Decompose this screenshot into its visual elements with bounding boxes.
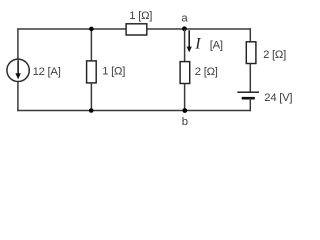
- svg-text:24 [V]: 24 [V]: [264, 92, 292, 104]
- svg-text:I: I: [194, 36, 201, 53]
- wire: left branch lower: [17, 82, 19, 112]
- label: 12 [A]: [33, 66, 61, 78]
- label: 1 [ohm] for R1: [129, 10, 152, 22]
- node b dot: [182, 108, 187, 113]
- svg-text:a: a: [181, 13, 188, 25]
- wire: bottom rail: [17, 110, 251, 112]
- current source I1 (12 A): [7, 59, 29, 81]
- wire: right branch middle: [249, 63, 251, 92]
- label: [A]: [210, 39, 223, 51]
- svg-text:b: b: [182, 116, 188, 128]
- resistor R2 1 ohm (vertical box): [87, 61, 97, 83]
- wire: right branch lower: [249, 98, 251, 111]
- resistor R1 1 ohm (horizontal box): [126, 24, 147, 35]
- wire: right branch upper: [249, 28, 251, 42]
- resistor R3 2 ohm (vertical box): [180, 62, 190, 84]
- wire: branch3 upper: [184, 29, 186, 62]
- current arrow I: [187, 30, 192, 52]
- label: I: [194, 36, 201, 53]
- junction dot bottom of R2 branch: [89, 108, 94, 113]
- svg-text:2 [Ω]: 2 [Ω]: [263, 49, 286, 61]
- wire: branch2 lower: [90, 83, 92, 111]
- node a dot: [182, 26, 187, 31]
- resistor R4 2 ohm (vertical box): [246, 42, 256, 64]
- svg-text:[A]: [A]: [210, 39, 223, 51]
- label: 2 [ohm] for R4: [263, 49, 286, 61]
- wire: top rail right segment: [147, 28, 251, 30]
- label: 24 [V]: [264, 92, 292, 104]
- svg-text:2 [Ω]: 2 [Ω]: [195, 66, 218, 78]
- wire: branch3 lower: [184, 84, 186, 111]
- label: node a: [181, 13, 188, 25]
- junction dot top of R2 branch: [89, 27, 94, 32]
- battery V1 24V: short thick plate: [242, 97, 255, 100]
- svg-text:1 [Ω]: 1 [Ω]: [129, 10, 152, 22]
- wire: branch2 upper: [90, 29, 92, 61]
- battery V1 24V: long plate: [237, 91, 259, 93]
- wire: top rail left segment: [17, 28, 126, 30]
- svg-text:12 [A]: 12 [A]: [33, 66, 61, 78]
- label: node b: [182, 116, 188, 128]
- label: 2 [ohm] for R3: [195, 66, 218, 78]
- wire: left branch upper: [17, 28, 19, 59]
- label: 1 [ohm] for R2: [102, 66, 125, 78]
- svg-text:1 [Ω]: 1 [Ω]: [102, 66, 125, 78]
